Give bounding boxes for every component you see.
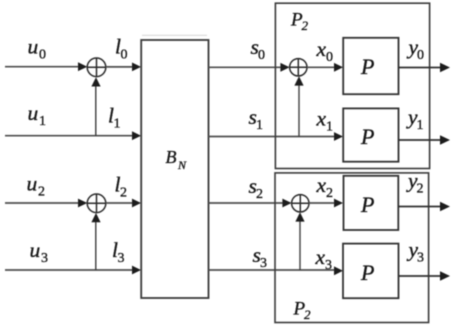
- arrowhead into BN row1: [132, 131, 141, 140]
- arrowhead into P1: [334, 63, 343, 72]
- wire XOR X1 to BN: [106, 66, 133, 68]
- svg-text:x: x: [316, 173, 327, 197]
- svg-text:u: u: [28, 35, 39, 59]
- block P3: [344, 176, 399, 230]
- wire s1 from BN to P2: [209, 136, 336, 138]
- svg-text:3: 3: [260, 256, 267, 271]
- wire u0 input: [5, 66, 79, 68]
- arrowhead into XOR X1: [78, 62, 87, 71]
- svg-text:0: 0: [258, 48, 265, 63]
- arrowhead into BN row0: [132, 63, 141, 72]
- svg-text:2: 2: [38, 185, 45, 200]
- svg-text:P: P: [360, 260, 374, 285]
- wire branch u3 up to XOR X2: [95, 220, 97, 270]
- svg-text:3: 3: [41, 251, 48, 266]
- XOR X4: [292, 195, 309, 212]
- arrowhead into BN row2: [132, 199, 141, 208]
- wire y1 output: [399, 139, 442, 141]
- arrowhead up into XOR X1: [91, 77, 100, 86]
- svg-text:u: u: [28, 101, 39, 125]
- svg-text:x: x: [315, 245, 326, 269]
- wire s2 from BN to XOR X4: [209, 202, 284, 204]
- svg-text:2: 2: [326, 186, 333, 201]
- arrowhead into XOR X4: [282, 199, 291, 208]
- wire u2 input: [5, 202, 79, 204]
- svg-text:3: 3: [325, 258, 332, 273]
- svg-text:2: 2: [120, 186, 127, 201]
- arrowhead into P4: [334, 266, 343, 275]
- svg-text:N: N: [177, 158, 187, 172]
- arrowhead y1: [440, 135, 450, 144]
- svg-text:3: 3: [118, 251, 125, 266]
- svg-text:3: 3: [417, 251, 424, 266]
- wire y3 output: [399, 275, 442, 277]
- XOR X2: [87, 194, 106, 213]
- svg-text:1: 1: [326, 120, 333, 135]
- svg-text:P: P: [360, 54, 374, 79]
- arrowhead into XOR X3: [280, 63, 289, 72]
- wire XOR X3 to P1: [307, 66, 335, 68]
- svg-text:1: 1: [39, 114, 46, 129]
- faint scan ghost line above BN: [142, 34, 207, 36]
- svg-text:2: 2: [304, 307, 311, 322]
- svg-text:1: 1: [417, 118, 424, 133]
- arrowhead up into XOR X2: [91, 213, 100, 222]
- wire u1 input: [5, 135, 133, 137]
- svg-text:P: P: [360, 124, 374, 149]
- block P2 group top: [275, 3, 429, 168]
- svg-text:B: B: [166, 147, 177, 167]
- wire y2 output: [399, 206, 442, 208]
- wire XOR X4 to P3: [309, 202, 335, 204]
- wire s0 from BN to XOR X3: [209, 66, 282, 68]
- arrowhead into P3: [334, 199, 343, 208]
- svg-text:2: 2: [417, 182, 424, 197]
- wire branch s3 up to XOR X4: [299, 219, 301, 270]
- svg-text:0: 0: [326, 50, 333, 65]
- svg-text:0: 0: [417, 48, 424, 63]
- svg-text:x: x: [316, 107, 327, 131]
- wire XOR X2 to BN: [106, 202, 133, 204]
- arrowhead y3: [440, 271, 450, 280]
- arrowhead into XOR X2: [78, 199, 87, 208]
- XOR X3: [290, 59, 307, 76]
- arrowhead up into XOR X4: [295, 212, 304, 221]
- wire s3 from BN to P4: [209, 269, 336, 271]
- svg-text:P: P: [360, 192, 374, 217]
- block BN: [141, 40, 208, 298]
- wire branch s1 up to XOR X3: [298, 84, 300, 137]
- arrowhead y0: [440, 63, 450, 72]
- svg-text:1: 1: [114, 117, 121, 132]
- arrowhead into P2: [334, 132, 343, 141]
- block P1: [343, 38, 398, 94]
- block P4: [343, 244, 399, 299]
- svg-text:2: 2: [302, 18, 309, 33]
- arrowhead into BN row3: [132, 266, 141, 275]
- wire u3 input: [5, 269, 133, 271]
- svg-text:0: 0: [121, 48, 128, 63]
- wire y0 output: [399, 67, 442, 69]
- svg-text:u: u: [30, 238, 41, 262]
- arrowhead up into XOR X3: [294, 76, 303, 85]
- svg-text:2: 2: [256, 187, 263, 202]
- arrowhead y2: [440, 202, 450, 211]
- svg-text:0: 0: [39, 48, 46, 63]
- block P2box: [343, 108, 398, 161]
- XOR X1: [87, 58, 106, 77]
- svg-text:1: 1: [256, 118, 263, 133]
- block P2 group bottom: [275, 173, 429, 323]
- wire branch u1 up to XOR X1: [95, 84, 97, 136]
- svg-text:x: x: [316, 37, 327, 61]
- svg-text:u: u: [27, 172, 38, 196]
